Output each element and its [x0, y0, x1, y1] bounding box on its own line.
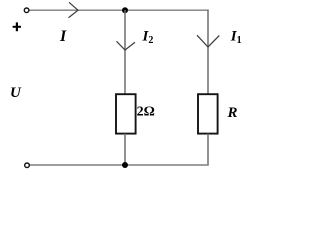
- wire: right branch lower segment: [207, 134, 209, 166]
- wire: top horizontal from + terminal to top-right corner: [29, 9, 209, 11]
- svg-text:I: I: [59, 28, 67, 45]
- resistor: R box: [198, 94, 218, 133]
- svg-text:2Ω: 2Ω: [137, 105, 155, 120]
- svg-text:U: U: [10, 85, 22, 101]
- wire: bottom horizontal: [30, 164, 209, 166]
- svg-text:I1: I1: [230, 29, 242, 47]
- arrow: current I1 down right branch: [197, 35, 219, 47]
- wire: middle branch upper segment: [124, 10, 126, 95]
- label: + polarity: [13, 22, 21, 31]
- arrow: current I2 down middle branch: [117, 41, 136, 50]
- svg-text:R: R: [227, 105, 238, 121]
- node: bottom junction dot: [122, 162, 128, 168]
- terminal: positive (open circle): [24, 8, 29, 13]
- terminal: negative (open circle): [25, 163, 30, 168]
- arrow: current I direction on top wire: [69, 2, 79, 17]
- resistor: 2 ohm box: [116, 94, 136, 133]
- node: top junction dot: [122, 7, 128, 13]
- wire: right branch upper segment: [207, 10, 209, 95]
- wire: middle branch lower segment: [124, 134, 126, 165]
- svg-text:I2: I2: [142, 29, 154, 47]
